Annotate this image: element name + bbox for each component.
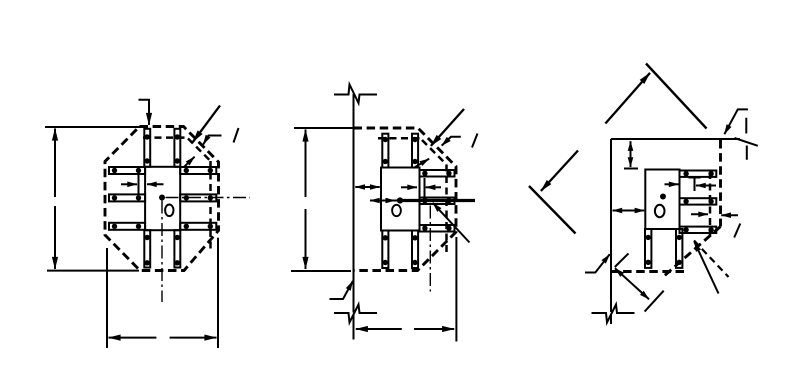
fig2 top lead col 2 — [412, 134, 418, 168]
fig3 lead tick mark — [689, 178, 701, 192]
fig1 top leader arrow — [139, 100, 150, 125]
fig1 top lead col 2 — [174, 129, 180, 167]
fig2 height dimension line upper — [305, 130, 307, 198]
fig2 top break symbol — [334, 85, 377, 104]
fig1 inner leader arrow — [184, 157, 195, 168]
fig2 lead-tip line segment — [424, 178, 426, 197]
fig2 right lead row 3 — [420, 225, 455, 232]
fig2 inner leader arrow — [414, 159, 430, 168]
fig2 diagonal leader arrow — [431, 109, 464, 146]
fig1 left lead row 1 — [109, 167, 145, 174]
fig1 diagonal leader arrow — [193, 106, 220, 142]
fig3 outer dashed chamfer — [664, 227, 721, 277]
fig1 height dimension line lower — [54, 206, 56, 269]
fig3 lead arrow left — [696, 185, 716, 187]
fig2 inner dashed line top — [378, 137, 421, 140]
fig3 bottom lead col 1 — [645, 229, 651, 268]
fig1 clearance arrow right — [121, 183, 137, 185]
fig3 bottom lead col 2 — [676, 229, 682, 268]
fig1 height dimension line upper — [54, 129, 56, 198]
fig1 width dimension line right — [170, 337, 217, 339]
fig3 leader arrow to edge A — [605, 73, 650, 124]
fig2 slash label — [472, 134, 478, 148]
fig3 board edge diagonal A — [646, 64, 707, 129]
fig3 slash label — [734, 224, 740, 238]
fig2 bottom extension line — [291, 270, 351, 272]
fig3 top dimension arrow — [630, 141, 632, 167]
fig1 clearance arrow left — [147, 183, 164, 185]
fig1 width dimension line left — [109, 337, 157, 339]
fig2 bottom-left leader arrow — [330, 281, 353, 299]
fig2 right lead row 2 — [420, 198, 455, 205]
fig1 left lead row 2 — [109, 194, 145, 201]
fig1 right lead row 3 — [180, 223, 216, 230]
fig1 bottom-dim right extension line — [217, 238, 219, 348]
fig3 right lead row 3 — [680, 227, 717, 233]
fig3 outer dashed line bottom — [612, 270, 684, 273]
fig1 component body — [145, 167, 180, 230]
fig2 bottom-right leader arrow — [433, 203, 470, 243]
fig2 center right arrowhead — [381, 200, 395, 202]
fig3 bottom-right leader arrow — [694, 242, 718, 294]
fig1 vertical centerline — [161, 201, 163, 303]
fig3 pad clearance arrow right — [691, 213, 708, 215]
fig3 leader arrow to edge B — [541, 151, 578, 192]
fig3 inner dashed line right — [709, 172, 712, 236]
fig2 vertical centerline — [429, 206, 431, 292]
fig2 outer dashed outline — [354, 128, 457, 271]
fig1 right lead row 2 — [180, 194, 216, 201]
fig1 zero label — [165, 205, 173, 217]
fig2 bottom break symbol — [334, 305, 377, 323]
fig3 board edge diagonal B — [529, 186, 576, 234]
fig2 component body — [381, 168, 420, 231]
fig1 inner dashed land-pattern line top — [143, 136, 187, 139]
fig3 left dimension arrow — [613, 210, 645, 212]
fig2 height dimension line lower — [305, 209, 307, 269]
fig1 bottom lead col 1 — [144, 230, 150, 267]
fig3 diagonal dimension tick 2 — [645, 291, 664, 312]
fig1 bottom extension line — [47, 270, 139, 272]
fig3 top dimension tick — [624, 168, 638, 170]
fig1 right lead row 1 — [180, 167, 216, 174]
fig1 inner dashed chamfer — [188, 139, 211, 162]
fig3 right break symbol — [735, 118, 758, 160]
fig2 slash leader arrow — [442, 137, 461, 146]
fig3 center dot — [660, 194, 666, 200]
fig2 inner dashed line right — [445, 165, 448, 254]
fig3 zero label — [655, 205, 665, 217]
fig1 horizontal centerline — [166, 197, 251, 199]
fig3 second dashed diagonal — [694, 241, 729, 278]
fig2 bottom lead col 2 — [412, 231, 418, 269]
fig1 inner dashed line right — [209, 161, 212, 253]
fig1 center dot — [159, 195, 165, 201]
fig1 outer dashed octagon — [105, 127, 219, 271]
fig3 corner horizontal line — [611, 138, 740, 140]
fig1 slash leader arrow — [203, 136, 221, 145]
fig2 width dimension line left — [356, 328, 402, 330]
fig2 clearance arrow left — [426, 186, 441, 188]
fig2 clearance arrow right — [401, 186, 417, 188]
fig1 left lead row 3 — [109, 223, 145, 230]
fig2 bottom-dim right extension line — [455, 237, 457, 342]
fig3 diagonal dimension arrow — [615, 268, 649, 299]
fig2 board edge line — [353, 94, 355, 340]
fig2 right lead row 1 — [420, 170, 455, 177]
fig3 component body — [645, 170, 679, 230]
fig1 bottom-dim left extension line — [106, 248, 108, 348]
fig3 top-right leader arrow — [724, 109, 748, 134]
fig1 bottom lead col 2 — [174, 230, 180, 267]
fig2 bottom lead col 1 — [382, 231, 388, 269]
fig1 lead-tip line segment — [138, 174, 140, 194]
fig3 pad clearance arrow left — [721, 214, 738, 216]
fig3 outer dashed line right — [719, 140, 722, 227]
fig2 thick leader line from center — [402, 199, 475, 202]
fig2 width dimension line right — [414, 328, 454, 330]
fig3 bottom-left bent leader — [585, 254, 610, 272]
fig3 body clearance arrow — [665, 183, 679, 185]
fig1 top lead col 1 — [144, 129, 150, 167]
fig2 top extension line — [294, 127, 353, 129]
fig2 edge-to-body dimension arrow — [355, 186, 379, 188]
fig3 corner vertical line — [610, 139, 612, 324]
fig1 top extension line — [45, 126, 141, 128]
fig2 inner dashed chamfer — [422, 140, 447, 165]
fig3 diagonal dimension tick 1 — [615, 253, 629, 267]
fig2 zero label — [392, 205, 401, 216]
fig1 slash label — [234, 128, 239, 143]
fig3 right lead row 1 — [680, 171, 717, 177]
fig3 right lead row 2 — [680, 198, 717, 204]
fig2 top lead col 1 — [382, 134, 388, 168]
fig2 center dot — [397, 197, 403, 203]
fig3 bottom break symbol — [592, 305, 635, 323]
fig2 center left arrow — [370, 200, 399, 202]
